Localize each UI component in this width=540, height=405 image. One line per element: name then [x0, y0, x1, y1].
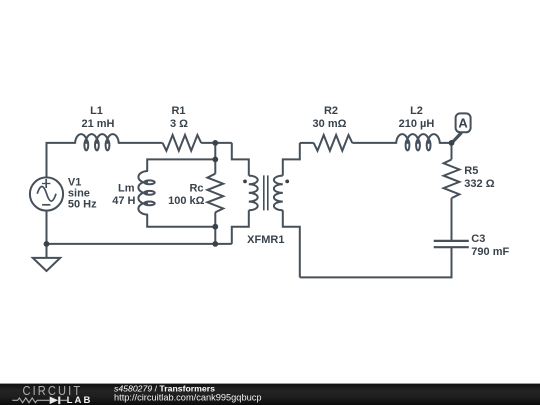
svg-text:L1: L1 [90, 105, 103, 117]
grayscale AA forcer [0, 0, 1, 1]
svg-text:3 Ω: 3 Ω [170, 118, 188, 130]
wire V1 bottom to ground rail [46, 211, 48, 244]
svg-text:C3: C3 [471, 233, 485, 245]
svg-text:LAB: LAB [67, 395, 93, 405]
svg-text:Rc: Rc [189, 183, 203, 195]
wire C3 to bottom-right rail [300, 247, 452, 277]
transformer polarity dot right [285, 180, 289, 184]
svg-text:Lm: Lm [118, 183, 135, 195]
resistor R5 (with leads) [451, 143, 453, 241]
probe A pointer [452, 133, 462, 143]
svg-text:790 mF: 790 mF [471, 246, 509, 258]
probe A box [456, 113, 471, 132]
svg-text:L2: L2 [410, 105, 423, 117]
svg-text:R5: R5 [464, 165, 478, 177]
svg-text:47 H: 47 H [112, 195, 135, 207]
wire R1 to transformer left lead [201, 142, 232, 144]
svg-text:332 Ω: 332 Ω [464, 178, 494, 190]
node dot Lm bottom [212, 224, 218, 230]
svg-text:210 µH: 210 µH [399, 118, 435, 130]
wire Lm bottom connect [147, 215, 215, 227]
wire L2 to node [440, 142, 452, 144]
svg-text:30 mΩ: 30 mΩ [313, 118, 347, 130]
wire L1 to R1 [119, 142, 163, 144]
svg-text:XFMR1: XFMR1 [247, 234, 284, 246]
wire R2 to L2 [352, 142, 396, 144]
resistor R2 [314, 135, 353, 151]
ground [46, 244, 48, 258]
wire bottom rail [47, 243, 232, 245]
inductor L2 [396, 134, 440, 144]
svg-text:R1: R1 [171, 105, 185, 117]
inductor L1 [75, 134, 119, 144]
wire top-right rail to R2 [300, 142, 314, 144]
svg-text:http://circuitlab.com/cank995g: http://circuitlab.com/cank995gqbucp [114, 393, 262, 403]
svg-text:50 Hz: 50 Hz [68, 199, 97, 211]
transformer polarity dot left [243, 180, 247, 184]
transformer XFMR1 right winding [283, 143, 300, 176]
capacitor C3 [434, 241, 469, 247]
svg-text:100 kΩ: 100 kΩ [168, 195, 205, 207]
svg-text:A: A [458, 116, 468, 131]
transformer XFMR1 left winding [232, 143, 249, 176]
node dot bottom rail [212, 241, 218, 247]
wire top-left rail V1 to L1 [47, 143, 75, 178]
node dot V1-ground [44, 241, 50, 247]
resistor Rc (with leads) [214, 143, 216, 244]
wire Lm top connect [147, 159, 215, 171]
node dot probe [449, 140, 455, 146]
voltage source V1 [30, 177, 63, 210]
transformer core [264, 175, 268, 210]
svg-text:R2: R2 [324, 105, 338, 117]
resistor R1 [163, 135, 202, 151]
logo resistor squiggle [12, 398, 49, 403]
node dot Lm top [212, 157, 218, 163]
node dot top rail [212, 140, 218, 146]
svg-text:21 mH: 21 mH [81, 118, 114, 130]
inductor Lm [138, 171, 148, 215]
logo diode [50, 397, 58, 405]
